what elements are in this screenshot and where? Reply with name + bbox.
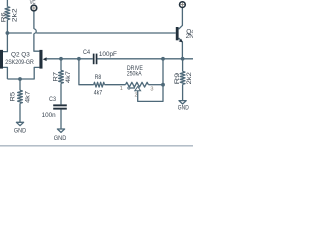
svg-text:Q2 Q3: Q2 Q3 bbox=[11, 51, 30, 58]
svg-text:2k2: 2k2 bbox=[11, 8, 18, 23]
svg-text:2: 2 bbox=[134, 93, 137, 99]
svg-text:1: 1 bbox=[120, 86, 123, 92]
svg-text:R9: R9 bbox=[174, 72, 181, 84]
svg-text:R8: R8 bbox=[95, 74, 102, 81]
svg-text:2N3904: 2N3904 bbox=[186, 33, 193, 40]
svg-text:3: 3 bbox=[150, 87, 153, 93]
svg-text:R7: R7 bbox=[53, 72, 60, 82]
svg-text:R5: R5 bbox=[9, 92, 16, 102]
svg-text:GND: GND bbox=[178, 105, 189, 112]
svg-text:2SK209-GR: 2SK209-GR bbox=[5, 59, 34, 66]
svg-text:GND: GND bbox=[54, 135, 67, 142]
svg-text:2k2: 2k2 bbox=[186, 72, 193, 85]
svg-text:GND: GND bbox=[14, 128, 26, 135]
svg-text:C4: C4 bbox=[83, 49, 90, 56]
svg-text:VC: VC bbox=[30, 0, 36, 6]
svg-text:4k7: 4k7 bbox=[65, 71, 72, 83]
svg-text:250kA: 250kA bbox=[127, 70, 142, 77]
svg-text:100pF: 100pF bbox=[99, 51, 117, 58]
svg-text:4k7: 4k7 bbox=[94, 89, 103, 96]
svg-text:R6: R6 bbox=[1, 12, 8, 22]
svg-text:100n: 100n bbox=[42, 112, 56, 119]
svg-text:4k7: 4k7 bbox=[25, 91, 32, 103]
svg-text:C3: C3 bbox=[49, 96, 56, 103]
